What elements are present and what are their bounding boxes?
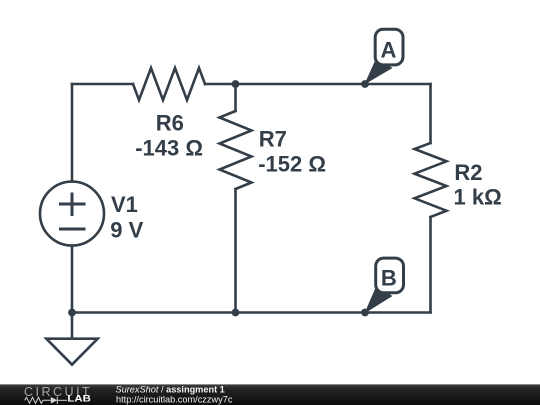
svg-text:R2: R2 [454, 160, 482, 185]
node dot R6-R7 junction [232, 80, 240, 88]
svg-text:9 V: 9 V [110, 217, 143, 242]
label R6 [135, 110, 203, 160]
svg-text:LAB: LAB [67, 394, 91, 404]
wire R7 top stub [234, 84, 237, 111]
node B junction dot [361, 309, 369, 317]
ground [46, 339, 97, 365]
wire top middle [205, 83, 431, 86]
svg-text:B: B [381, 265, 397, 290]
svg-text:SurexShot / assingment 1: SurexShot / assingment 1 [116, 384, 225, 394]
svg-text:1 kΩ: 1 kΩ [454, 185, 502, 210]
node A flag pointer [364, 58, 392, 85]
resistor R2 [415, 143, 447, 217]
node dot ground junction [68, 309, 76, 317]
node A flag box [375, 29, 403, 65]
svg-text:R7: R7 [259, 126, 287, 151]
V1 plus sign [61, 194, 85, 215]
logo zigzag-diode icon [25, 397, 67, 404]
wire top-left horizontal [72, 83, 133, 86]
svg-text:-143 Ω: -143 Ω [135, 136, 203, 161]
wire right vertical lower [429, 217, 432, 313]
resistor R6 [133, 68, 205, 100]
svg-text:R6: R6 [156, 110, 184, 135]
resistor R7 [220, 111, 252, 189]
node A junction dot [361, 80, 369, 88]
svg-text:A: A [381, 37, 397, 62]
voltage source V1 [40, 182, 104, 246]
node B flag pointer [364, 286, 392, 314]
svg-text:http://circuitlab.com/czzwy7c: http://circuitlab.com/czzwy7c [116, 394, 233, 404]
wire R7 bottom stub [234, 189, 237, 313]
label R7 [258, 126, 326, 176]
node dot R7 bottom junction [232, 309, 240, 317]
svg-text:-152 Ω: -152 Ω [258, 151, 326, 176]
label R2 [454, 160, 502, 210]
logo diode triangle [51, 397, 58, 404]
wire bottom horizontal [72, 311, 431, 314]
V1 minus sign [61, 228, 85, 231]
svg-text:V1: V1 [111, 192, 138, 217]
wire left vertical upper [71, 84, 74, 182]
wire left vertical lower [71, 246, 74, 313]
wire ground stub [71, 313, 74, 339]
label V1 [110, 192, 143, 242]
wire right vertical upper [429, 84, 432, 143]
node B flag box [376, 258, 404, 293]
